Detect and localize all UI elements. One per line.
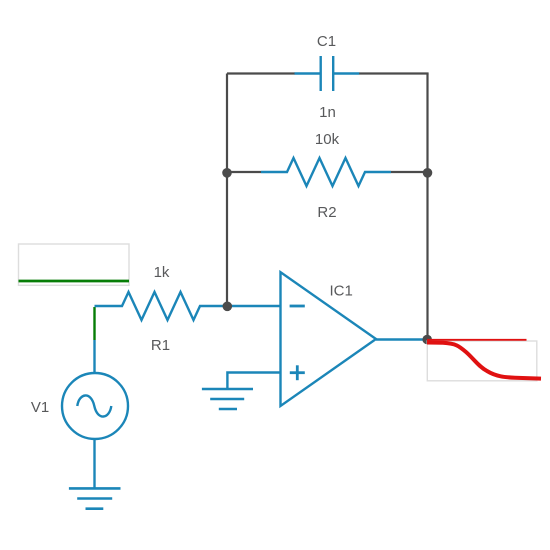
- op-amp plus symbol: [290, 365, 305, 380]
- svg-text:1n: 1n: [319, 104, 336, 121]
- junction dot output node: [422, 335, 432, 345]
- wire: non-inverting input: [227, 373, 281, 389]
- op-amp minus symbol: [290, 305, 305, 308]
- junction dot right R2 node: [423, 168, 433, 178]
- wire: inverting input (node to op-amp): [227, 305, 281, 307]
- svg-text:R2: R2: [317, 204, 336, 221]
- wire: op-amp output: [376, 338, 428, 340]
- voltage source V1: [62, 373, 128, 439]
- junction dot inverting input node: [223, 302, 233, 312]
- scope box left (input trace): [19, 244, 130, 285]
- wire: V1 bottom lead: [93, 439, 95, 488]
- wire: R2 right stub: [391, 171, 428, 173]
- capacitor C1: [295, 56, 360, 91]
- resistor R2: [261, 158, 391, 186]
- wire: left vertical (node A to inverting input): [226, 74, 228, 307]
- scope box right (output trace): [427, 341, 537, 381]
- input waveform trace (green): [19, 280, 130, 283]
- output reference line (thin red): [427, 339, 527, 341]
- wire: input corner green segment: [93, 307, 95, 340]
- svg-text:10k: 10k: [315, 131, 340, 148]
- output waveform trace (red): [427, 343, 541, 379]
- wire: right vertical (to output node): [426, 74, 428, 340]
- ground (below V1): [69, 488, 121, 508]
- svg-text:1k: 1k: [154, 264, 170, 281]
- junction dot left R2 node: [222, 168, 232, 178]
- svg-text:C1: C1: [317, 33, 336, 50]
- svg-text:V1: V1: [31, 399, 49, 416]
- resistor R1: [95, 292, 228, 320]
- svg-text:IC1: IC1: [330, 283, 353, 300]
- ground (non-inverting input): [202, 389, 253, 409]
- wire: R2 left stub: [227, 171, 261, 173]
- wire: V1 top lead blue: [93, 340, 95, 374]
- wire: top right horizontal from C1: [359, 72, 429, 74]
- svg-text:R1: R1: [151, 337, 170, 354]
- wire: top left horizontal to C1: [227, 72, 295, 74]
- op-amp IC1: [281, 272, 377, 406]
